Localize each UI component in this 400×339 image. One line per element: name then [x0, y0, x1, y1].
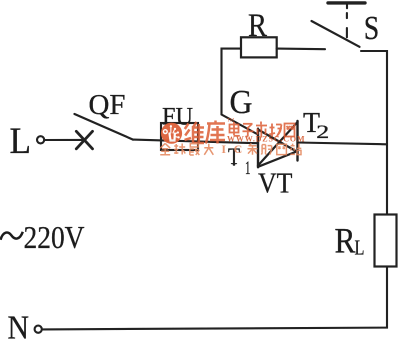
svg-text:VT: VT — [258, 168, 293, 200]
watermark char zi — [243, 124, 254, 137]
switch S pushbutton bar — [328, 1, 365, 4]
watermark char ku — [206, 121, 225, 144]
watermark bottom row: quan qiu zui da IC cai gou wang zhan — [160, 143, 301, 155]
svg-text:L: L — [355, 236, 365, 260]
triac VT triangle pointing left — [258, 122, 298, 166]
wire gate: from resistor R down to gate G — [222, 49, 259, 135]
switch S blade — [312, 21, 360, 47]
svg-text:220V: 220V — [24, 219, 85, 255]
wire RL to bottom — [43, 267, 387, 330]
stray dot near T1 — [233, 163, 236, 166]
triac VT right bar (T2) — [296, 121, 298, 161]
watermark char shi — [256, 122, 267, 138]
watermark logo circle — [161, 123, 182, 144]
wire triac T2 to right rail — [298, 143, 388, 145]
label ~220V — [1, 232, 23, 240]
switch S linkage dashed — [346, 13, 348, 18]
wire switch S to right rail — [361, 51, 387, 215]
watermark char wang — [285, 124, 295, 137]
svg-text:1: 1 — [245, 158, 251, 179]
watermark char dian — [230, 122, 240, 136]
watermark char chang — [269, 124, 282, 138]
svg-text:R: R — [335, 221, 356, 261]
svg-text:N: N — [8, 310, 30, 339]
svg-text:L: L — [10, 121, 32, 162]
wire L to QF — [45, 139, 85, 141]
svg-text:G: G — [230, 84, 253, 121]
resistor R body — [241, 37, 277, 57]
resistor RL body — [375, 215, 397, 267]
terminal N circle — [35, 326, 42, 333]
svg-text:QF: QF — [89, 89, 126, 121]
switch S pushbutton stem — [346, 4, 348, 8]
fuse FU rectangle — [161, 123, 198, 150]
watermark char wei — [185, 122, 205, 143]
triac VT triangle pointing right — [258, 130, 298, 167]
breaker QF blade — [75, 114, 134, 140]
breaker QF contact cross — [76, 131, 92, 149]
svg-text:S: S — [364, 10, 380, 47]
wire QF to triac T1 — [133, 140, 258, 144]
triac VT left bar (T1) — [257, 129, 259, 168]
svg-text:2: 2 — [316, 122, 329, 143]
svg-text:I: I — [221, 142, 226, 156]
svg-text:C: C — [234, 142, 243, 156]
svg-text:R: R — [248, 8, 267, 44]
terminal L circle — [37, 136, 44, 143]
watermark — [161, 123, 182, 144]
wire resistor R to switch S — [277, 48, 325, 51]
